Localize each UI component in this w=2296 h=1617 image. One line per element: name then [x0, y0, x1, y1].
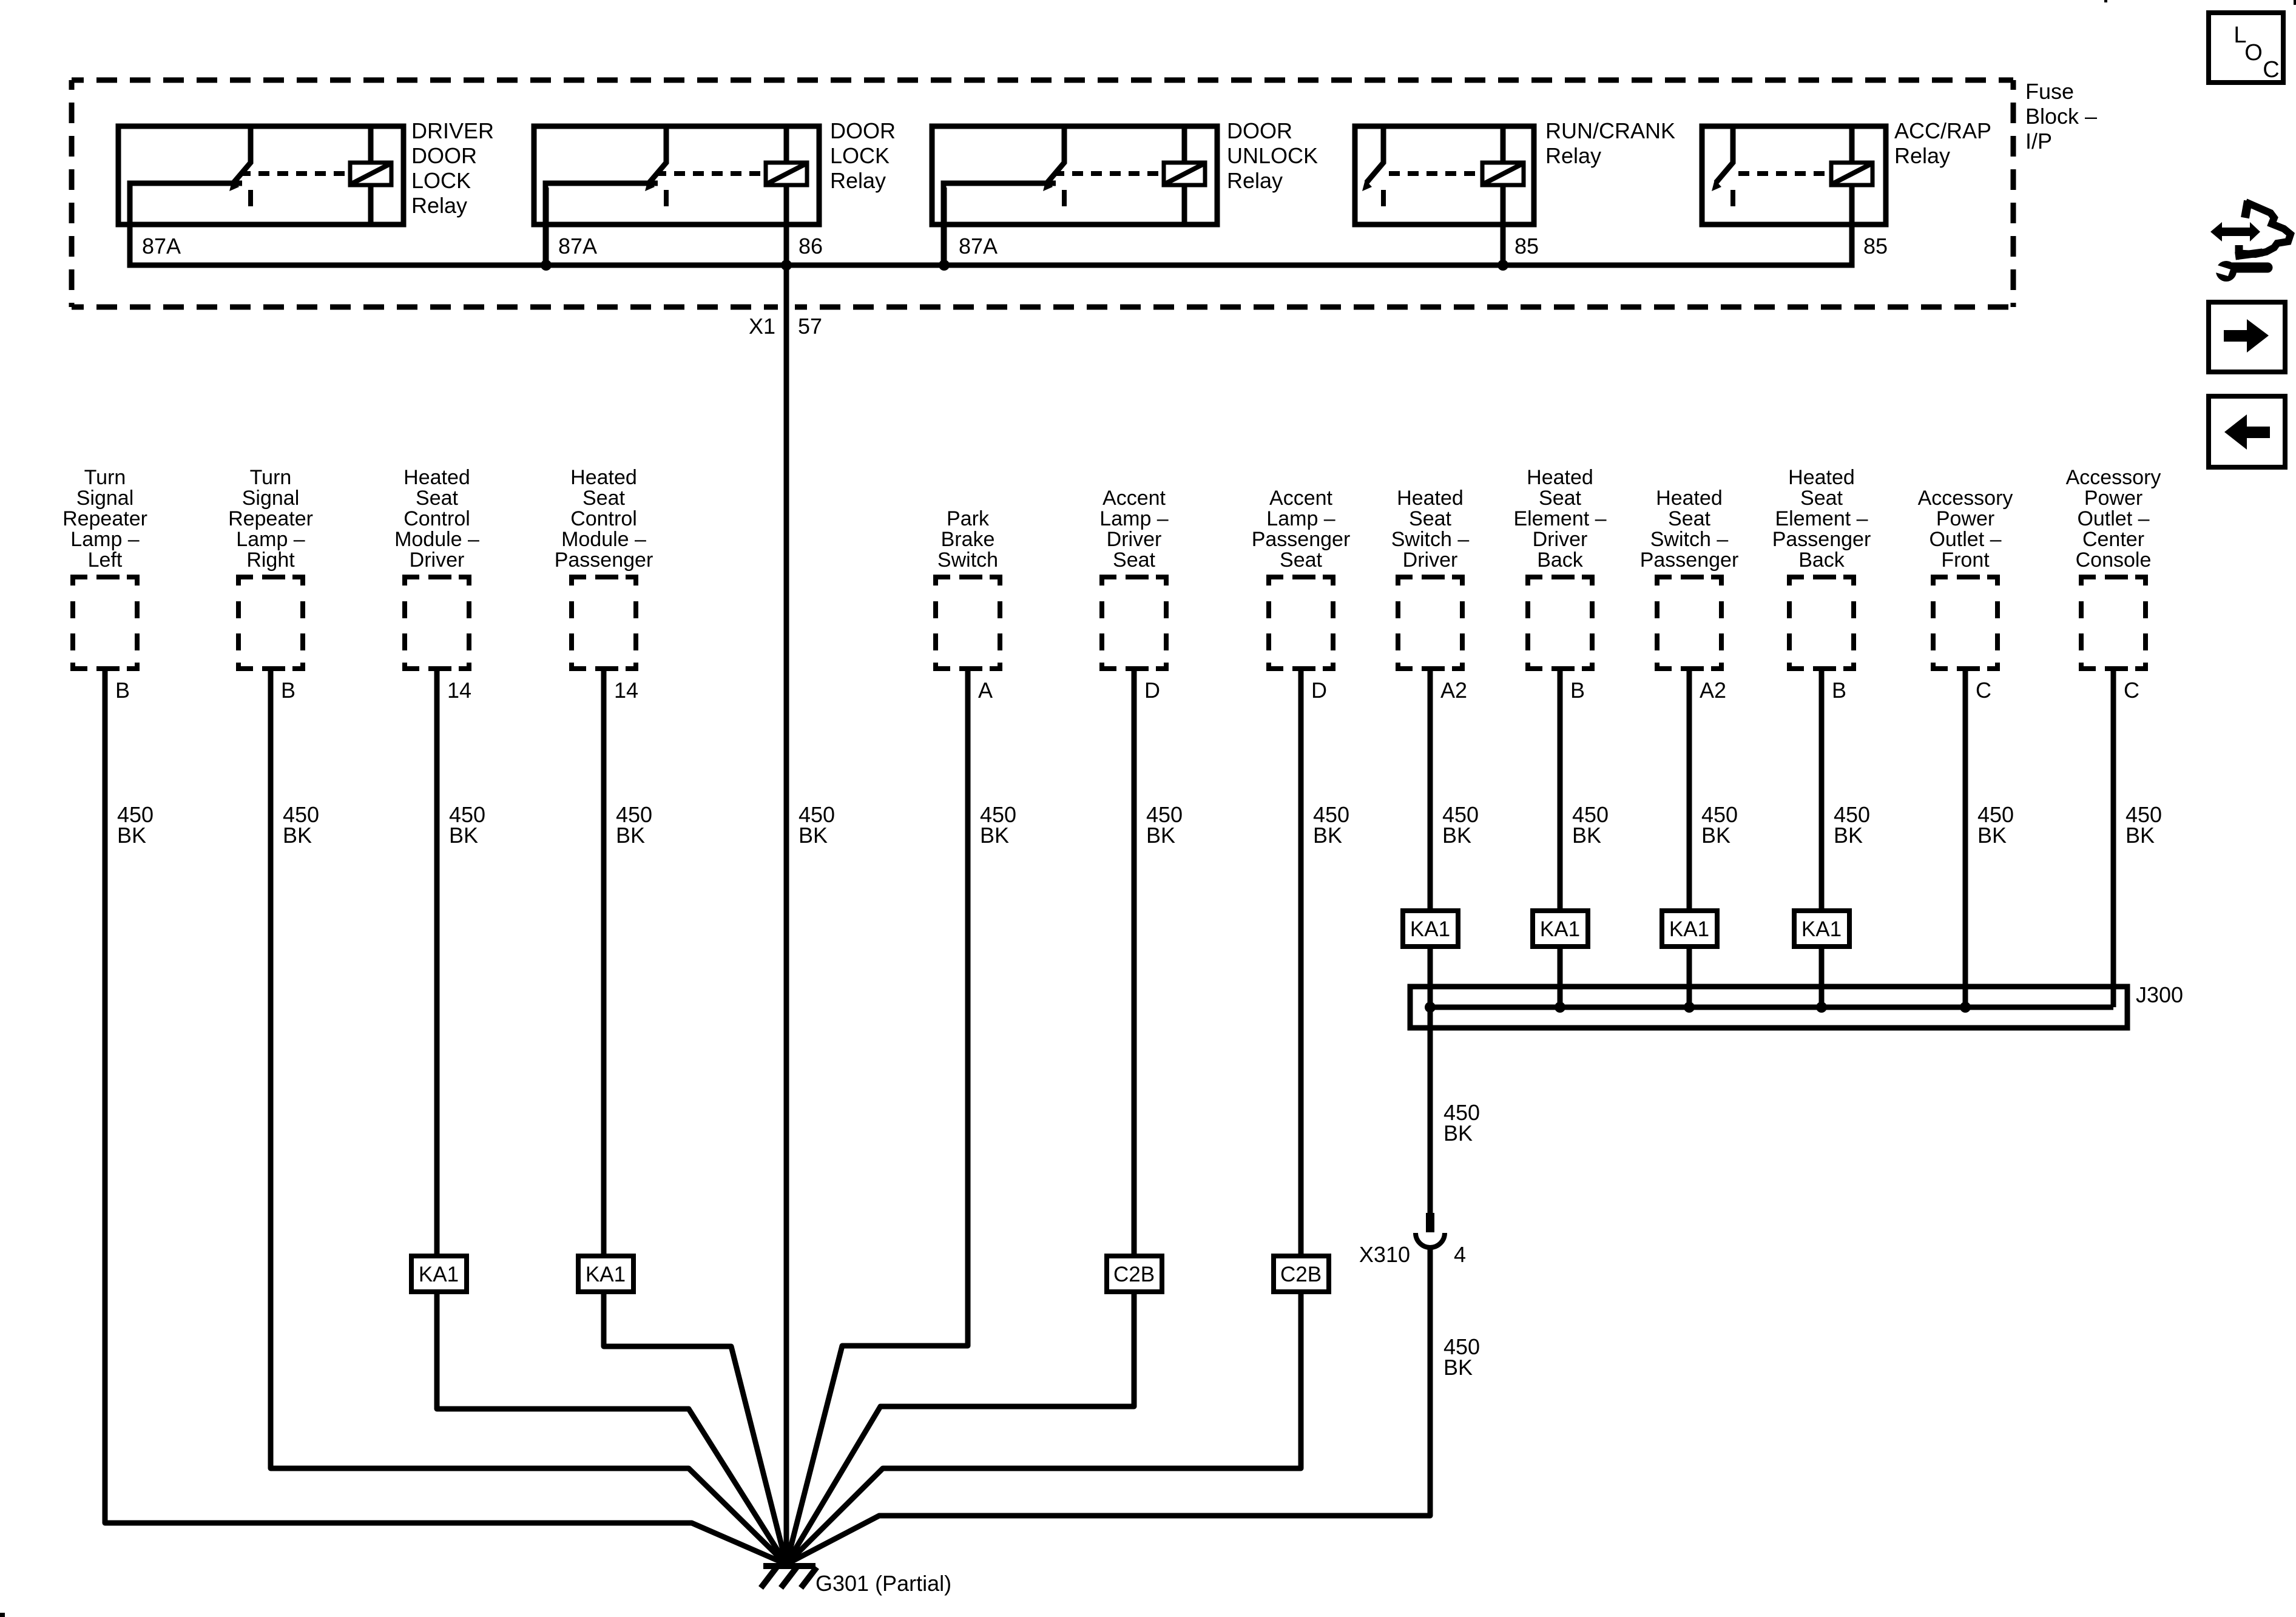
svg-text:Park: Park: [947, 507, 990, 530]
splice KA1 b: [1533, 911, 1588, 947]
svg-text:Fuse: Fuse: [2025, 79, 2074, 104]
svg-text:DOOR: DOOR: [1227, 118, 1292, 143]
svg-text:Turn: Turn: [84, 466, 126, 489]
relay K1 DRIVER DOOR LOCK: [118, 126, 403, 265]
svg-text:Right: Right: [246, 549, 295, 572]
relay K3 DOOR UNLOCK: [932, 126, 1217, 265]
svg-text:BK: BK: [1146, 823, 1175, 848]
Accent Lamp - Driver Seat connector box: [1099, 575, 1169, 671]
svg-text:KA1: KA1: [586, 1263, 626, 1286]
wire Accessory Power Outlet Center Console to J300: [2111, 671, 2116, 1007]
svg-text:C2B: C2B: [1280, 1263, 1322, 1286]
Heated Seat Control Module - Driver connector box: [402, 575, 471, 671]
relay K2 87A pin leg: [544, 187, 549, 265]
svg-text:Brake: Brake: [941, 528, 995, 551]
junction block J300: [1410, 987, 2127, 1028]
svg-text:Switch –: Switch –: [1650, 528, 1729, 551]
svg-text:Repeater: Repeater: [62, 507, 147, 530]
Park Brake Switch connector box: [933, 575, 1002, 671]
svg-text:Seat: Seat: [582, 487, 625, 510]
adjust/service icon: double arrow: [2210, 222, 2260, 241]
svg-text:Signal: Signal: [242, 487, 300, 510]
splice KA1 e: [411, 1256, 467, 1292]
relay K3 87A pin leg: [942, 187, 947, 265]
svg-text:KA1: KA1: [419, 1263, 459, 1286]
svg-text:Repeater: Repeater: [228, 507, 313, 530]
adjust/service icon: wrench: [2216, 261, 2237, 282]
svg-text:Relay: Relay: [1227, 168, 1283, 193]
svg-text:57: 57: [798, 314, 822, 339]
svg-text:Outlet –: Outlet –: [2077, 507, 2149, 530]
junction: [939, 260, 950, 271]
svg-text:BK: BK: [283, 823, 312, 848]
svg-text:Module –: Module –: [561, 528, 646, 551]
svg-text:Heated: Heated: [1397, 487, 1464, 510]
svg-text:Passenger: Passenger: [1640, 549, 1739, 572]
svg-text:BK: BK: [2125, 823, 2155, 848]
svg-text:Control: Control: [403, 507, 470, 530]
svg-text:Switch: Switch: [937, 549, 998, 572]
junction: [781, 260, 792, 271]
svg-text:Front: Front: [1941, 549, 1990, 572]
svg-text:Back: Back: [1537, 549, 1584, 572]
splice KA1 c: [1662, 911, 1717, 947]
svg-text:Console: Console: [2076, 549, 2152, 572]
svg-text:I/P: I/P: [2025, 129, 2052, 154]
svg-text:85: 85: [1514, 234, 1539, 258]
wire J300 to X310: [1428, 1028, 1433, 1213]
svg-text:Relay: Relay: [830, 168, 886, 193]
svg-text:BK: BK: [449, 823, 478, 848]
svg-text:Seat: Seat: [1539, 487, 1581, 510]
wire 450 BK from door lock relay to G301: [784, 265, 789, 1564]
connector C2B b: [1274, 1256, 1329, 1292]
svg-text:Driver: Driver: [1533, 528, 1588, 551]
relay K4 85 pin leg: [1501, 224, 1506, 265]
svg-text:DRIVER: DRIVER: [411, 118, 494, 143]
svg-text:BK: BK: [1834, 823, 1863, 848]
svg-text:14: 14: [614, 678, 638, 703]
svg-text:Outlet –: Outlet –: [1929, 528, 2001, 551]
wire Heated Seat Control Module Passenger to G301: [604, 671, 786, 1564]
svg-text:Passenger: Passenger: [555, 549, 653, 572]
relay K2 DOOR LOCK: [534, 126, 819, 265]
svg-text:BK: BK: [616, 823, 645, 848]
svg-text:Accent: Accent: [1269, 487, 1332, 510]
svg-text:BK: BK: [1701, 823, 1730, 848]
wire Accessory Power Outlet Front to J300: [1963, 671, 1968, 1007]
svg-text:Lamp –: Lamp –: [1266, 507, 1335, 530]
junction: [541, 260, 552, 271]
svg-text:87A: 87A: [959, 234, 998, 258]
svg-text:BK: BK: [1442, 823, 1471, 848]
svg-text:ACC/RAP: ACC/RAP: [1894, 118, 1991, 143]
svg-text:Seat: Seat: [1409, 507, 1451, 530]
Turn Signal Repeater Lamp - Left connector box: [70, 575, 140, 671]
wire Heated Seat Switch Driver to J300: [1428, 671, 1433, 1213]
wire Heated Seat Element Driver Back to J300: [1558, 671, 1563, 1007]
svg-text:14: 14: [447, 678, 471, 703]
svg-text:C: C: [2124, 678, 2139, 703]
junction J300: [1684, 1002, 1695, 1013]
page mark: [0, 1613, 5, 1617]
svg-text:Driver: Driver: [1403, 549, 1458, 572]
svg-text:BK: BK: [799, 823, 828, 848]
Accessory Power Outlet - Front connector box: [1931, 575, 2000, 671]
svg-text:X310: X310: [1359, 1242, 1410, 1267]
svg-text:KA1: KA1: [1801, 917, 1842, 941]
svg-text:Heated: Heated: [570, 466, 637, 489]
Heated Seat Element - Passenger Back connector box: [1787, 575, 1856, 671]
svg-text:Turn: Turn: [250, 466, 292, 489]
svg-text:87A: 87A: [142, 234, 181, 258]
svg-text:DOOR: DOOR: [830, 118, 896, 143]
Heated Seat Element - Driver Back connector box: [1525, 575, 1595, 671]
svg-text:Left: Left: [88, 549, 123, 572]
svg-text:Passenger: Passenger: [1772, 528, 1871, 551]
connector C2B a: [1107, 1256, 1162, 1292]
svg-text:Element –: Element –: [1775, 507, 1868, 530]
svg-text:B: B: [1570, 678, 1585, 703]
connector X310 inline symbol: [1426, 1213, 1434, 1232]
svg-text:87A: 87A: [558, 234, 597, 258]
svg-text:Seat: Seat: [416, 487, 458, 510]
back arrow box: [2209, 396, 2285, 467]
svg-text:BK: BK: [1443, 1121, 1473, 1146]
Accessory Power Outlet - Center Console connector box: [2079, 575, 2148, 671]
svg-text:BK: BK: [1572, 823, 1601, 848]
svg-text:Lamp –: Lamp –: [70, 528, 139, 551]
svg-text:KA1: KA1: [1540, 917, 1580, 941]
svg-text:Center: Center: [2082, 528, 2144, 551]
svg-text:Passenger: Passenger: [1252, 528, 1351, 551]
svg-text:BK: BK: [980, 823, 1009, 848]
svg-text:Seat: Seat: [1668, 507, 1710, 530]
svg-text:G301 (Partial): G301 (Partial): [815, 1571, 951, 1596]
svg-text:Power: Power: [1936, 507, 1994, 530]
svg-text:B: B: [115, 678, 130, 703]
wire Accent Lamp Passenger Seat to G301: [786, 671, 1301, 1564]
svg-text:A2: A2: [1700, 678, 1726, 703]
junction J300: [1425, 1002, 1436, 1013]
relay K2 86 pin leg: [784, 224, 789, 265]
junction J300: [1960, 1002, 1971, 1013]
relay K5 ACC/RAP: [1702, 126, 1886, 224]
svg-text:B: B: [281, 678, 295, 703]
svg-text:B: B: [1832, 678, 1846, 703]
svg-text:X1: X1: [749, 314, 775, 339]
svg-text:Relay: Relay: [411, 193, 467, 218]
svg-text:BK: BK: [1443, 1355, 1473, 1380]
svg-text:Heated: Heated: [403, 466, 470, 489]
Fuse Block - I/P dashed boundary: [72, 78, 2013, 83]
svg-text:UNLOCK: UNLOCK: [1227, 143, 1318, 168]
svg-text:Block –: Block –: [2025, 104, 2097, 129]
svg-text:Signal: Signal: [76, 487, 134, 510]
svg-text:Element –: Element –: [1513, 507, 1606, 530]
svg-text:Lamp –: Lamp –: [236, 528, 305, 551]
svg-text:DOOR: DOOR: [411, 143, 477, 168]
wire Turn Signal Repeater Lamp Right to G301: [271, 671, 786, 1564]
wire Turn Signal Repeater Lamp Left to G301: [105, 671, 786, 1564]
svg-text:KA1: KA1: [1410, 917, 1450, 941]
svg-text:86: 86: [799, 234, 823, 258]
svg-text:Seat: Seat: [1280, 549, 1322, 572]
svg-text:BK: BK: [1313, 823, 1342, 848]
svg-text:Heated: Heated: [1788, 466, 1855, 489]
junction J300: [1816, 1002, 1827, 1013]
forward arrow box: [2209, 302, 2285, 372]
svg-text:C: C: [2263, 57, 2279, 83]
wire Heated Seat Control Module Driver to G301: [437, 671, 786, 1564]
splice KA1 f: [578, 1256, 633, 1292]
svg-text:Relay: Relay: [1894, 143, 1950, 168]
svg-text:BK: BK: [1977, 823, 2007, 848]
wire Heated Seat Switch Passenger to J300: [1687, 671, 1692, 1007]
svg-text:A: A: [978, 678, 993, 703]
svg-text:Back: Back: [1798, 549, 1845, 572]
ground bus wire inside fuse block: [130, 224, 1852, 265]
svg-text:Seat: Seat: [1113, 549, 1155, 572]
svg-text:Switch –: Switch –: [1391, 528, 1470, 551]
wire Park Brake Switch to G301: [786, 671, 968, 1564]
svg-text:A2: A2: [1440, 678, 1467, 703]
adjust/service icon: hand outline: [2245, 201, 2248, 218]
svg-text:RUN/CRANK: RUN/CRANK: [1545, 118, 1675, 143]
svg-text:LOCK: LOCK: [411, 168, 471, 193]
svg-text:BK: BK: [117, 823, 146, 848]
splice KA1 a: [1403, 911, 1458, 947]
svg-text:C: C: [1976, 678, 1991, 703]
splice KA1 d: [1794, 911, 1849, 947]
svg-text:Accessory: Accessory: [1918, 487, 2013, 510]
svg-text:O: O: [2244, 40, 2263, 66]
svg-text:LOCK: LOCK: [830, 143, 890, 168]
ground G301: [763, 1563, 815, 1569]
wire Accent Lamp Driver Seat to G301: [786, 671, 1134, 1564]
svg-text:Lamp –: Lamp –: [1099, 507, 1168, 530]
junction: [1497, 260, 1508, 271]
svg-text:Heated: Heated: [1656, 487, 1723, 510]
svg-text:4: 4: [1454, 1242, 1466, 1267]
svg-text:Module –: Module –: [394, 528, 479, 551]
svg-text:Accent: Accent: [1102, 487, 1166, 510]
svg-text:Driver: Driver: [1107, 528, 1162, 551]
top edge specks: [2104, 0, 2107, 2]
Accent Lamp - Passenger Seat connector box: [1266, 575, 1335, 671]
wire X310 to G301: [786, 1248, 1430, 1564]
svg-text:Power: Power: [2084, 487, 2142, 510]
svg-text:Accessory: Accessory: [2066, 466, 2161, 489]
svg-text:Driver: Driver: [410, 549, 465, 572]
LOC legend box: [2209, 13, 2283, 83]
svg-text:C2B: C2B: [1113, 1263, 1155, 1286]
Heated Seat Switch - Driver connector box: [1396, 575, 1465, 671]
Turn Signal Repeater Lamp - Right connector box: [236, 575, 305, 671]
svg-text:KA1: KA1: [1669, 917, 1709, 941]
Heated Seat Switch - Passenger connector box: [1655, 575, 1724, 671]
svg-text:Control: Control: [570, 507, 637, 530]
svg-text:Relay: Relay: [1545, 143, 1601, 168]
svg-text:D: D: [1311, 678, 1327, 703]
svg-text:J300: J300: [2136, 982, 2183, 1007]
svg-text:Heated: Heated: [1527, 466, 1593, 489]
svg-text:85: 85: [1863, 234, 1888, 258]
svg-text:Seat: Seat: [1800, 487, 1843, 510]
relay K4 RUN/CRANK: [1355, 126, 1534, 224]
svg-text:D: D: [1144, 678, 1160, 703]
wire Heated Seat Element Passenger Back to J300: [1819, 671, 1825, 1007]
Heated Seat Control Module - Passenger connector box: [569, 575, 638, 671]
junction J300: [1555, 1002, 1565, 1013]
